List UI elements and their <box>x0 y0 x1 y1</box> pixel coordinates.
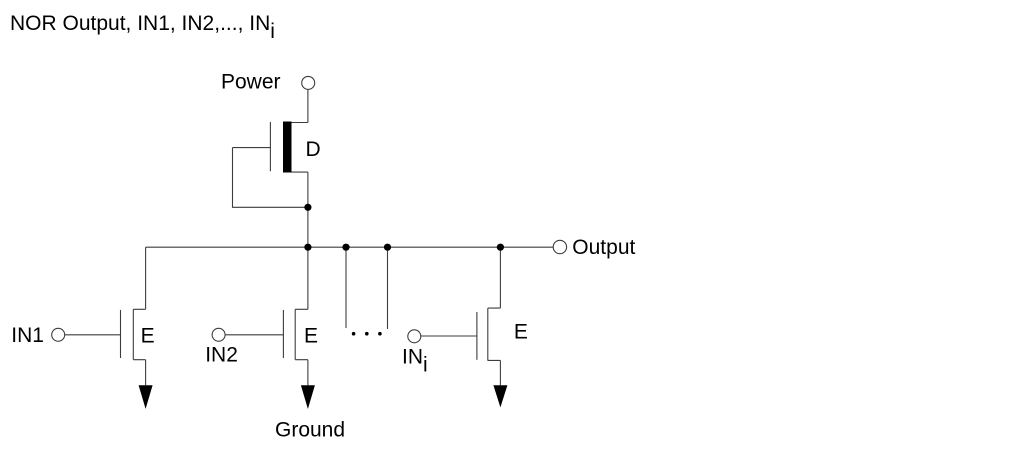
svg-text:IN1: IN1 <box>11 324 44 347</box>
svg-text:Ground: Ground <box>275 419 345 442</box>
svg-text:E: E <box>514 321 528 344</box>
svg-text:Power: Power <box>221 70 281 93</box>
svg-text:Output: Output <box>572 236 635 259</box>
svg-text:D: D <box>306 138 321 161</box>
svg-text:E: E <box>304 324 318 347</box>
svg-text:E: E <box>141 324 155 347</box>
svg-text:IN2: IN2 <box>205 344 238 367</box>
